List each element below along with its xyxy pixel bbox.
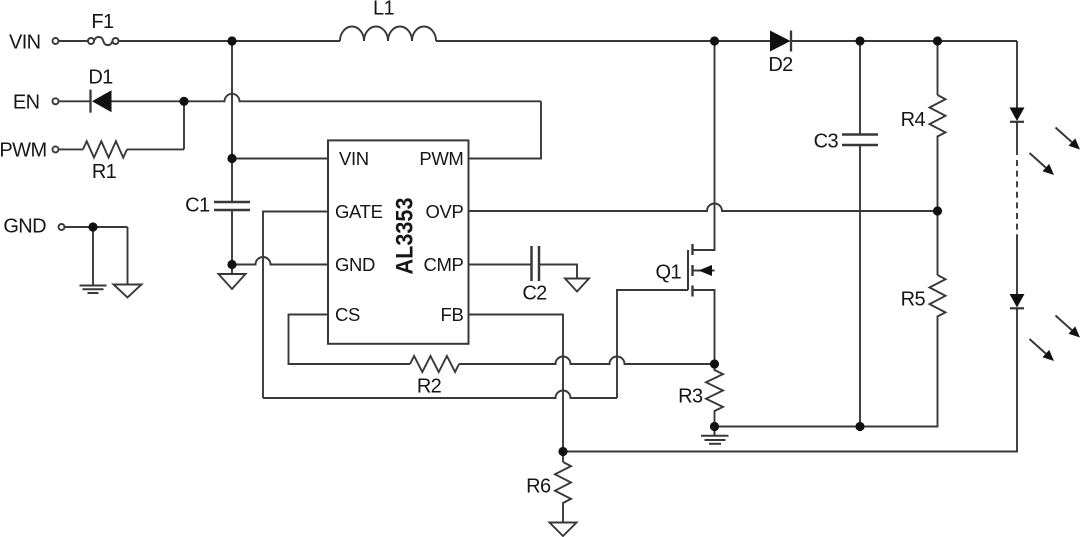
node Q1 source junction xyxy=(710,359,719,368)
svg-text:CS: CS xyxy=(335,304,360,325)
LED2 emission arrow lower xyxy=(1030,339,1055,361)
wire LED1 cathode down xyxy=(1016,122,1018,155)
wire EN line down to PWM pin xyxy=(469,101,542,158)
LED1 emission arrow upper xyxy=(1056,128,1080,150)
svg-text:GND: GND xyxy=(3,215,46,237)
svg-text:F1: F1 xyxy=(91,11,114,33)
wire OVP pin with hop over drain vertical xyxy=(469,204,938,211)
node C1-GND pin junction xyxy=(227,260,236,269)
wire GND terminal to node xyxy=(65,226,128,228)
LED LED2 xyxy=(1010,294,1025,308)
wire GND pin with hop over GATE vertical xyxy=(232,257,328,264)
svg-text:C1: C1 xyxy=(185,194,210,216)
wire dashed end to LED2 xyxy=(1016,240,1018,294)
wire CS run with hops over FB and gate verticals xyxy=(459,357,715,364)
svg-text:R4: R4 xyxy=(901,109,926,131)
wire C3 top xyxy=(859,41,861,134)
wire dashed LED string continuation xyxy=(1016,160,1018,240)
wire input node down to C1 xyxy=(231,159,233,203)
svg-text:FB: FB xyxy=(441,304,464,325)
resistor R5 xyxy=(930,275,946,320)
wire C1 to ground node xyxy=(231,210,233,265)
svg-text:R5: R5 xyxy=(901,289,926,311)
node VIN pin junction xyxy=(227,154,236,163)
wire R3 ground rail to R5 xyxy=(715,320,938,427)
earth ground at GND terminal xyxy=(80,286,107,294)
resistor R1 xyxy=(83,141,127,157)
svg-text:GATE: GATE xyxy=(335,201,383,222)
svg-text:CMP: CMP xyxy=(423,254,463,275)
resistor R3 xyxy=(706,364,723,427)
ground triangle at GND terminal xyxy=(114,285,142,298)
LED1 emission arrow lower xyxy=(1030,153,1055,175)
wire GATE run with hop over FB vertical xyxy=(263,391,617,398)
terminal VIN xyxy=(53,38,59,44)
svg-text:OVP: OVP xyxy=(425,201,463,222)
diode D2 xyxy=(770,31,791,52)
earth ground at R3 xyxy=(701,427,729,444)
wire PWM terminal to R1 xyxy=(59,148,84,150)
svg-text:AL3353: AL3353 xyxy=(392,198,419,275)
svg-text:R2: R2 xyxy=(417,376,442,398)
wire output rail down to LED string xyxy=(1016,41,1018,108)
svg-text:PWM: PWM xyxy=(0,140,47,162)
LED LED1 xyxy=(1010,108,1025,122)
wire C3 bottom to ground rail xyxy=(859,145,861,427)
resistor R6 xyxy=(555,452,571,510)
wire D2 cathode to output rail xyxy=(791,40,1017,42)
svg-text:D2: D2 xyxy=(768,54,793,76)
ground triangle at C2 xyxy=(565,279,589,292)
wire OVP node to R5 xyxy=(937,211,939,275)
svg-text:C3: C3 xyxy=(814,131,839,153)
svg-text:VIN: VIN xyxy=(9,31,41,53)
wire GATE up to Q1 gate xyxy=(617,290,688,398)
IC U1 AL3353 box xyxy=(328,140,469,343)
node C3 ground junction xyxy=(855,422,864,431)
resistor R4 xyxy=(930,95,946,142)
wire EN line with hop over input node xyxy=(184,94,541,101)
wire FB pin right and down to bottom node xyxy=(469,315,564,452)
wire GND node right branch down xyxy=(127,227,129,285)
svg-text:VIN: VIN xyxy=(339,148,369,169)
wire vertical input node x=232 top to VIN pin xyxy=(231,41,233,159)
wire fuse to node VIN-rail xyxy=(119,40,341,42)
capacitor C3 xyxy=(842,135,878,146)
wire VIN terminal to fuse xyxy=(59,40,89,42)
node EN-R1 junction xyxy=(179,97,188,106)
terminal PWM xyxy=(53,146,59,152)
fuse F1 xyxy=(88,37,119,45)
node R3 ground junction xyxy=(710,422,719,431)
node GND terminal junction xyxy=(88,222,97,231)
node output R4 junction xyxy=(933,36,942,45)
wire R1 to node EN-R1 xyxy=(127,148,184,150)
wire GND node down to earth xyxy=(92,227,94,285)
wire LED2 cathode down to bottom rail xyxy=(563,308,1017,451)
wire R4 bottom to OVP node xyxy=(937,142,939,212)
wire C2 to ground xyxy=(540,265,578,279)
LED2 emission arrow upper xyxy=(1056,316,1080,338)
wire L1 to switch node xyxy=(436,40,770,42)
svg-text:PWM: PWM xyxy=(419,148,463,169)
svg-text:Q1: Q1 xyxy=(656,262,682,284)
wire R6 to ground xyxy=(562,509,564,523)
terminal GND xyxy=(59,224,65,230)
wire GATE pin left and down xyxy=(263,212,328,399)
capacitor C2 xyxy=(532,246,540,281)
node OVP divider junction xyxy=(933,206,942,215)
wire VIN pin stub xyxy=(232,158,328,160)
wire R4 top stub xyxy=(937,41,939,95)
wire EN terminal to D1 xyxy=(59,100,90,102)
transistor Q1 xyxy=(688,41,715,364)
svg-text:R3: R3 xyxy=(678,386,703,408)
inductor L1 xyxy=(340,27,436,42)
svg-text:D1: D1 xyxy=(88,67,113,89)
node FB-R6 junction xyxy=(558,447,567,456)
wire node EN-R1 vertical xyxy=(183,101,185,149)
svg-text:R6: R6 xyxy=(526,476,551,498)
ground triangle at C1 xyxy=(219,274,246,289)
ground triangle at R6 xyxy=(550,523,577,537)
svg-text:EN: EN xyxy=(13,92,40,114)
diode D1 xyxy=(91,90,112,113)
svg-text:C2: C2 xyxy=(522,283,547,305)
terminal EN xyxy=(53,98,59,104)
wire CS pin left and down xyxy=(289,315,411,365)
node output C3 junction xyxy=(855,36,864,45)
wire D1 anode to node EN-R1 xyxy=(112,100,185,102)
svg-text:R1: R1 xyxy=(92,161,117,183)
svg-text:L1: L1 xyxy=(373,0,395,20)
resistor R2 xyxy=(410,356,459,372)
node switch junction xyxy=(710,36,719,45)
node input rail junction xyxy=(227,36,236,45)
svg-text:GND: GND xyxy=(335,254,375,275)
capacitor C1 xyxy=(214,202,250,210)
wire CMP pin to C2 xyxy=(469,264,532,266)
